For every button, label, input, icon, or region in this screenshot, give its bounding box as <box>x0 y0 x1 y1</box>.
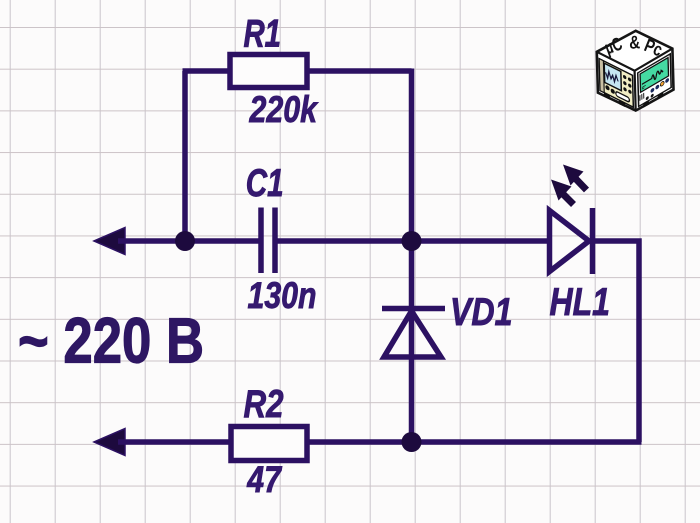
svg-text:47: 47 <box>246 459 282 500</box>
arrow: left end of middle wire <box>94 228 125 255</box>
wire: middle horizontal from capacitor to LED <box>278 238 550 244</box>
svg-text:R1: R1 <box>244 13 282 56</box>
wire: middle horizontal from arrow to capacitor <box>118 238 259 244</box>
capacitor C1 left plate <box>258 208 264 274</box>
logo top face text <box>602 31 666 60</box>
logo left face oscilloscope <box>599 59 633 112</box>
logo cube faces <box>597 31 674 111</box>
LED HL1 triangle <box>550 211 590 272</box>
label R2 <box>244 383 284 426</box>
junction node B (411.5,241) <box>402 231 422 251</box>
label HL1 <box>550 281 611 324</box>
wire: vertical from top wire corner down through VD1 to bottom wire <box>409 69 415 443</box>
svg-text:~ 220 В: ~ 220 В <box>18 305 204 377</box>
svg-text:220k: 220k <box>249 89 319 130</box>
resistor R2 <box>231 427 307 461</box>
diode VD1 cathode bar <box>382 306 445 312</box>
wire: top-left vertical from top wire corner down to mid-wire junction <box>182 71 188 241</box>
svg-text:C1: C1 <box>246 162 284 205</box>
logo cube uC&Pc <box>597 31 674 111</box>
diode VD1 triangle <box>384 311 441 357</box>
svg-text:R2: R2 <box>244 383 284 426</box>
junction node A (185,241) <box>175 231 195 251</box>
LED HL1 emission arrow lower <box>551 180 574 205</box>
wire: from LED cathode to right corner and down to bottom wire <box>594 241 639 442</box>
value 47 <box>246 459 282 500</box>
wire: bottom horizontal from R2 to right corner <box>307 439 642 445</box>
svg-text:VD1: VD1 <box>450 291 513 334</box>
resistor R1 <box>230 55 307 88</box>
LED HL1 cathode bar <box>590 208 596 274</box>
label C1 <box>246 162 284 205</box>
arrow: left end of bottom wire <box>94 429 125 456</box>
junction node C (411.5,442) <box>402 432 422 452</box>
wire: top horizontal right segment from R1 to right corner <box>307 68 412 74</box>
label VD1 <box>450 291 513 334</box>
label R1 <box>244 13 282 56</box>
svg-text:130n: 130n <box>248 275 317 316</box>
svg-text:HL1: HL1 <box>550 281 611 324</box>
logo cube inner edges <box>597 49 673 111</box>
LED HL1 emission arrow upper <box>563 165 587 191</box>
value 220k <box>249 89 319 130</box>
wire: bottom horizontal from arrow to R2 <box>118 439 231 445</box>
wire: top horizontal left segment into R1 <box>183 68 231 74</box>
net label ~220V <box>18 305 204 377</box>
svg-text:&: & <box>629 31 641 52</box>
logo right face monitor <box>638 54 672 111</box>
capacitor C1 right plate <box>272 208 278 274</box>
value 130n <box>248 275 317 316</box>
